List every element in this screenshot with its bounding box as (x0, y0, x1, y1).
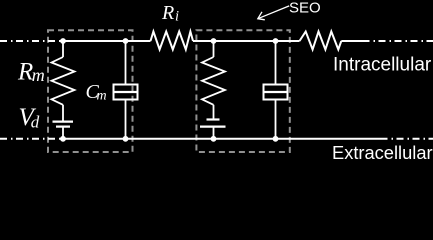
wire: top rail solid from node to Ri (61, 40, 151, 42)
wire: Extracellular rail dash-dot (left) (0, 138, 60, 140)
svg-text:m: m (97, 89, 107, 104)
wire: box1 left branch top lead (62, 41, 64, 57)
battery (box2, short plate on top) (207, 118, 220, 120)
resistor Rm (vertical zigzag) (52, 57, 75, 105)
svg-text:Intracellular: Intracellular (333, 55, 432, 76)
node: box1 branchA top junction (60, 38, 66, 44)
wire: box1 capacitor branch bottom lead (125, 100, 127, 139)
membrane box 1 (dashed) (48, 30, 133, 152)
battery Vd (short plate) (56, 125, 70, 127)
wire: box1 left branch between resistor and battery (62, 105, 64, 122)
wire: Extracellular rail dash-dot (right) (381, 138, 433, 140)
svg-text:Extracellular: Extracellular (332, 142, 433, 159)
wire: Intracellular rail dash-dot (right) (363, 40, 433, 42)
node: box1 cap top junction (123, 38, 129, 44)
wire: box2 left branch bottom lead (213, 127, 215, 139)
node: box1 cap bottom junction (123, 136, 129, 142)
svg-text:i: i (175, 8, 179, 24)
capacitor Cm (114, 85, 138, 100)
node: box2 branchA bottom junction (211, 136, 217, 142)
wire: box1 capacitor branch top lead (125, 41, 127, 85)
svg-text:R: R (161, 2, 174, 24)
wire: box2 capacitor branch top lead (275, 41, 277, 85)
node: box2 branchA top junction (211, 38, 217, 44)
resistor (seal, right horizontal zigzag) (300, 32, 342, 50)
capacitor (box2) (264, 85, 288, 100)
svg-text:SEO: SEO (289, 0, 321, 16)
wire: bottom rail solid (60, 138, 381, 140)
SEO callout arrow (258, 6, 289, 20)
svg-text:m: m (32, 65, 45, 85)
battery (box2, long plate below) (200, 125, 226, 127)
wire: box1 left branch bottom lead (62, 127, 64, 139)
resistor Ri (horizontal zigzag) (151, 32, 194, 50)
node: box2 cap bottom junction (273, 136, 279, 142)
svg-text:d: d (31, 113, 40, 132)
battery Vd (long plate) (53, 120, 74, 122)
resistor (box2 vertical zigzag) (202, 57, 225, 105)
node: box2 cap top junction (273, 38, 279, 44)
wire: Intracellular rail dash-dot (left) (0, 40, 61, 42)
wire: top rail solid through SEO box (193, 40, 300, 42)
wire: box2 left branch top lead (213, 41, 215, 57)
SEO box 2 (dashed) (196, 30, 289, 152)
wire: top rail solid after right resistor (341, 40, 362, 42)
node: box1 branchA bottom junction (60, 136, 66, 142)
wire: box2 capacitor branch bottom lead (275, 100, 277, 139)
wire: box2 left branch between resistor and battery (213, 105, 215, 120)
